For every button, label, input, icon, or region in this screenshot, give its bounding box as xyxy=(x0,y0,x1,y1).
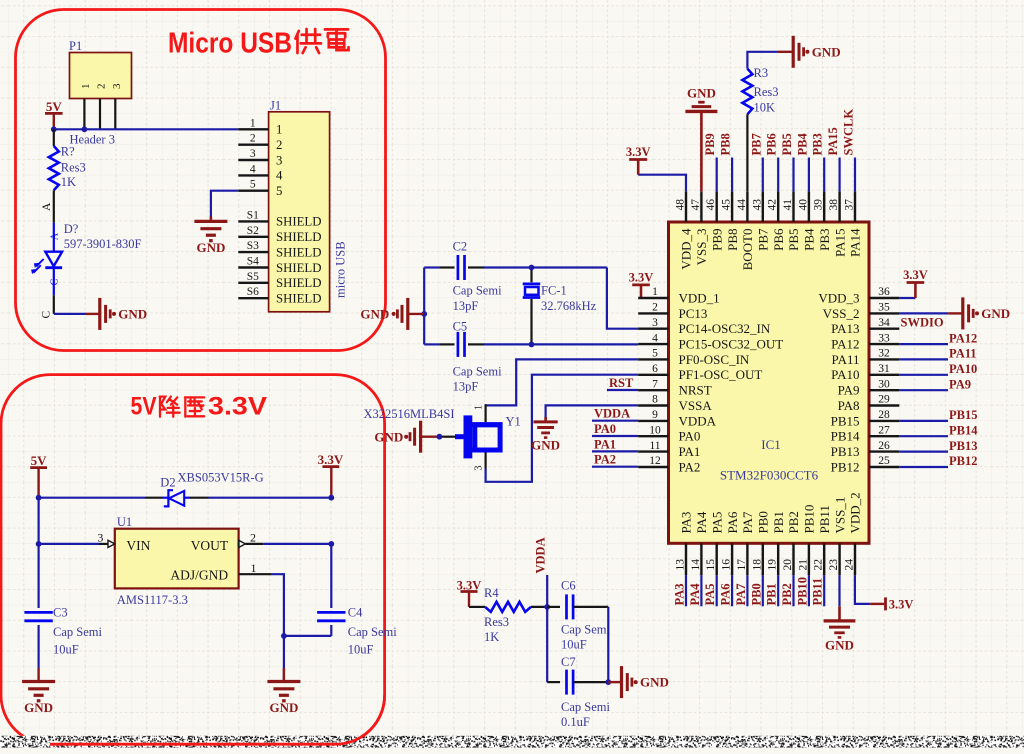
svg-text:1: 1 xyxy=(250,117,256,129)
svg-text:GND: GND xyxy=(825,638,854,653)
svg-text:3: 3 xyxy=(97,531,103,545)
svg-text:PC13: PC13 xyxy=(679,306,708,321)
svg-text:27: 27 xyxy=(878,424,890,436)
svg-text:PB4: PB4 xyxy=(802,228,817,251)
svg-text:2: 2 xyxy=(250,133,256,145)
svg-text:PB9: PB9 xyxy=(709,229,724,251)
IC pin 26 PB13 xyxy=(831,440,900,459)
svg-text:19: 19 xyxy=(767,559,779,571)
svg-text:3: 3 xyxy=(276,153,282,167)
svg-text:VDDA: VDDA xyxy=(679,413,717,428)
power ground GND (Y1 case) xyxy=(374,421,455,453)
svg-text:PF1-OSC_OUT: PF1-OSC_OUT xyxy=(679,367,763,382)
IC pin 48 VDD_4 xyxy=(675,191,694,269)
IC pin 46 PB9 xyxy=(705,191,724,251)
wire+net label PB11 (pin 22) xyxy=(811,575,825,606)
svg-text:PA1: PA1 xyxy=(679,444,701,459)
svg-text:VDD_3: VDD_3 xyxy=(818,290,859,305)
svg-text:SWCLK: SWCLK xyxy=(842,109,856,156)
svg-text:X322516MLB4SI: X322516MLB4SI xyxy=(364,407,455,421)
svg-text:3: 3 xyxy=(652,317,658,329)
power ground GND (VSS_2) xyxy=(948,297,1010,329)
svg-text:VSS_2: VSS_2 xyxy=(823,306,860,321)
svg-text:PB6: PB6 xyxy=(765,133,779,155)
svg-text:40: 40 xyxy=(797,199,809,211)
svg-text:1: 1 xyxy=(474,405,485,410)
svg-text:R4: R4 xyxy=(484,586,499,600)
J1 pin S2 xyxy=(238,225,321,244)
crystal FC-1 32.768kHz xyxy=(523,268,597,345)
svg-text:U1: U1 xyxy=(117,515,132,529)
svg-text:3: 3 xyxy=(474,466,485,471)
svg-text:28: 28 xyxy=(878,409,890,421)
svg-text:3.3V: 3.3V xyxy=(626,145,651,159)
svg-text:GND: GND xyxy=(360,307,389,322)
wire+net label PA11 (pin 32) xyxy=(899,347,976,361)
svg-text:PA9: PA9 xyxy=(838,383,860,398)
wire: top OSC32 net (C2 row) xyxy=(424,266,440,268)
svg-text:GND: GND xyxy=(640,675,669,690)
scan noise strip at page bottom xyxy=(0,736,1024,748)
svg-text:PB5: PB5 xyxy=(786,229,801,251)
svg-text:PB3: PB3 xyxy=(811,133,825,155)
title: Micro USB supply xyxy=(168,28,349,60)
svg-text:J1: J1 xyxy=(270,99,281,113)
svg-text:PA11: PA11 xyxy=(832,352,860,367)
svg-text:24: 24 xyxy=(844,559,856,571)
net label VDDA (vertical) xyxy=(534,537,548,607)
J1 pin S1 xyxy=(238,209,321,228)
earth ground GND (J1 pin5) xyxy=(194,217,227,255)
IC pin 35 VSS_2 xyxy=(823,302,900,321)
svg-text:ADJ/GND: ADJ/GND xyxy=(170,567,228,582)
svg-text:Micro USB: Micro USB xyxy=(168,28,292,60)
svg-text:18: 18 xyxy=(751,559,763,571)
svg-text:C6: C6 xyxy=(561,579,576,593)
svg-text:PA2: PA2 xyxy=(594,453,616,467)
svg-text:0.1uF: 0.1uF xyxy=(561,715,590,729)
resistor R3 Res3 10K (BOOT0 pulldown) xyxy=(742,52,778,192)
svg-text:VSS_3: VSS_3 xyxy=(694,229,709,266)
svg-text:C7: C7 xyxy=(561,655,576,669)
wire+net label PB6 (pin 42) xyxy=(765,133,779,191)
svg-text:C5: C5 xyxy=(453,320,468,334)
capacitor C2 Cap Semi 13pF xyxy=(453,240,502,314)
capacitor C4 Cap Semi 10uF xyxy=(317,544,397,656)
IC pin 34 PA13 xyxy=(831,317,899,336)
svg-text:38: 38 xyxy=(828,199,840,211)
wire VSS_2 pin35 to GND xyxy=(899,312,948,314)
IC pin 25 PB12 xyxy=(831,455,900,474)
svg-text:16: 16 xyxy=(721,559,733,571)
svg-text:47: 47 xyxy=(690,199,702,211)
wire+net label PB13 (pin 26) xyxy=(899,439,977,453)
power port 3.3V (regulator) xyxy=(318,452,344,498)
svg-text:GND: GND xyxy=(981,306,1010,321)
wire+net label PB0 (pin 18) xyxy=(749,575,763,606)
svg-text:C4: C4 xyxy=(348,606,363,620)
svg-text:30: 30 xyxy=(878,378,890,390)
wire+net label PB4 (pin 40) xyxy=(795,133,809,192)
net label PA0 on IC pin10 xyxy=(592,435,638,437)
svg-text:5V: 5V xyxy=(131,393,157,421)
svg-text:VDD_2: VDD_2 xyxy=(848,492,863,533)
svg-text:micro USB: micro USB xyxy=(334,241,348,298)
svg-text:7: 7 xyxy=(652,378,658,390)
IC pin 17 PA7 xyxy=(736,511,755,575)
IC pin 47 VSS_3 xyxy=(690,191,709,265)
capacitor C7 Cap Semi 0.1uF xyxy=(547,655,610,729)
earth ground GND (ADJ/C4) xyxy=(267,636,300,715)
IC pin 19 PB1 xyxy=(767,511,786,575)
svg-text:PA5: PA5 xyxy=(709,512,724,534)
wire+net label PB5 (pin 41) xyxy=(780,133,794,191)
svg-text:PC14-OSC32_IN: PC14-OSC32_IN xyxy=(679,321,771,336)
svg-text:S4: S4 xyxy=(247,256,259,268)
power port 5V (regulator) xyxy=(30,453,47,498)
IC pin 37 PA14 xyxy=(844,191,863,257)
svg-text:D?: D? xyxy=(64,222,79,236)
power port 3.3V to IC pin48 xyxy=(626,145,686,191)
power ground GND (OSC32 filter) xyxy=(360,298,424,330)
svg-text:22: 22 xyxy=(813,559,825,571)
svg-text:8: 8 xyxy=(652,394,658,406)
svg-text:VOUT: VOUT xyxy=(191,538,229,553)
wire: IC pin6 to Y1 pin3 xyxy=(486,375,639,482)
svg-text:XBS053V15R-G: XBS053V15R-G xyxy=(178,471,264,485)
svg-text:5: 5 xyxy=(652,348,658,360)
wire+net label PA15 (pin 38) xyxy=(826,127,840,191)
svg-text:3.3V: 3.3V xyxy=(208,393,267,421)
svg-text:PA0: PA0 xyxy=(594,422,616,436)
svg-text:4: 4 xyxy=(652,332,658,344)
svg-text:PA0: PA0 xyxy=(679,429,701,444)
wire+net label PA7 (pin 17) xyxy=(734,575,748,606)
svg-text:GND: GND xyxy=(24,700,53,715)
svg-text:PA14: PA14 xyxy=(848,228,863,257)
svg-text:SWDIO: SWDIO xyxy=(901,316,944,330)
svg-text:VSS_1: VSS_1 xyxy=(832,497,847,534)
wire ADJ node to C4 xyxy=(284,635,331,637)
J1 pin S5 xyxy=(238,271,321,290)
svg-text:C: C xyxy=(40,311,52,319)
svg-text:1: 1 xyxy=(80,84,92,90)
resistor R? Res3 1K xyxy=(41,129,86,222)
IC pin 12 PA2 xyxy=(638,455,700,474)
IC pin 30 PA9 xyxy=(838,378,900,397)
IC pin 29 PA8 xyxy=(838,394,900,413)
U1 pin 2 wire to 3.3V rail xyxy=(239,531,335,548)
svg-text:Cap Semi: Cap Semi xyxy=(453,284,502,298)
svg-text:C: C xyxy=(50,278,61,285)
svg-text:23: 23 xyxy=(828,559,840,571)
svg-text:SHIELD: SHIELD xyxy=(276,245,322,259)
wire: down to IC pin 3 xyxy=(607,268,638,329)
svg-text:33: 33 xyxy=(878,332,890,344)
svg-text:PB0: PB0 xyxy=(749,583,763,605)
svg-text:Cap Semi: Cap Semi xyxy=(348,625,397,639)
U1 pin 3 xyxy=(97,531,114,548)
svg-text:PA10: PA10 xyxy=(831,367,859,382)
J1 pin 3 xyxy=(238,148,282,167)
wire+net label PA10 (pin 31) xyxy=(899,362,977,376)
net label PA2 on IC pin12 xyxy=(592,466,638,468)
IC pin 13 PA3 xyxy=(675,512,694,576)
svg-text:Res3: Res3 xyxy=(484,615,509,629)
svg-text:21: 21 xyxy=(797,559,809,571)
IC pin 23 VSS_1 xyxy=(828,497,847,575)
svg-text:RST: RST xyxy=(609,376,634,390)
svg-text:2: 2 xyxy=(652,302,658,314)
svg-text:2: 2 xyxy=(250,531,256,545)
IC pin 42 PB6 xyxy=(767,191,786,251)
IC pin 36 VDD_3 xyxy=(818,286,899,305)
svg-text:PB14: PB14 xyxy=(831,429,860,444)
red frame: 5V to 3.3V regulator block xyxy=(1,375,385,745)
power ground GND (C7) xyxy=(608,666,669,698)
svg-text:PB10: PB10 xyxy=(802,505,817,534)
power port 3.3V (VDD_2 pin24) xyxy=(855,575,914,611)
svg-text:13: 13 xyxy=(675,559,687,571)
svg-text:VIN: VIN xyxy=(126,538,150,553)
svg-text:25: 25 xyxy=(878,455,890,467)
svg-text:R?: R? xyxy=(61,145,75,159)
svg-text:VDDA: VDDA xyxy=(594,407,630,421)
capacitor C5 Cap Semi 13pF xyxy=(453,320,502,394)
svg-text:1K: 1K xyxy=(61,175,76,189)
power port 3.3V to IC pin1 xyxy=(629,270,654,298)
svg-text:P1: P1 xyxy=(69,39,82,53)
IC pin 14 PA4 xyxy=(690,511,709,575)
IC pin 28 PB15 xyxy=(831,409,900,428)
wire: 5V node to J1 pin 1 xyxy=(54,128,239,130)
net label PA1 on IC pin11 xyxy=(592,450,638,452)
net label VDDA on IC pin9 xyxy=(592,420,638,422)
svg-text:2: 2 xyxy=(96,84,108,90)
svg-text:597-3901-830F: 597-3901-830F xyxy=(64,237,142,251)
wire+net label PB1 (pin 19) xyxy=(765,575,779,606)
svg-text:S2: S2 xyxy=(247,225,259,237)
wire: bottom OSC32 net (C5 row) to IC pin 4 xyxy=(424,343,440,345)
IC pin 6 PF1-OSC_OUT xyxy=(638,363,762,382)
svg-text:PA10: PA10 xyxy=(949,362,977,376)
svg-text:32.768kHz: 32.768kHz xyxy=(541,299,597,313)
svg-text:20: 20 xyxy=(782,559,794,571)
IC pin 7 NRST xyxy=(638,378,712,397)
power port 3.3V to IC pin36 xyxy=(899,268,928,298)
svg-text:35: 35 xyxy=(878,302,890,314)
svg-text:C2: C2 xyxy=(453,240,468,254)
svg-text:3: 3 xyxy=(111,83,123,89)
svg-text:FC-1: FC-1 xyxy=(541,284,567,298)
wire+net label PB12 (pin 25) xyxy=(899,454,977,468)
svg-text:PB12: PB12 xyxy=(831,459,860,474)
svg-text:13pF: 13pF xyxy=(453,380,479,394)
svg-text:Cap Semi: Cap Semi xyxy=(453,364,502,378)
J1 pin S3 xyxy=(238,240,321,259)
IC pin 3 PC14-OSC32_IN xyxy=(638,317,771,336)
svg-text:S6: S6 xyxy=(247,286,259,298)
svg-text:GND: GND xyxy=(374,429,403,444)
wire+net label PB9 (pin 46) xyxy=(703,133,717,191)
svg-text:Cap Semi: Cap Semi xyxy=(561,623,610,637)
svg-text:37: 37 xyxy=(844,199,856,211)
IC pin 27 PB14 xyxy=(831,424,900,443)
IC pin 44 BOOT0 xyxy=(736,191,755,270)
wire+net label PB3 (pin 39) xyxy=(811,133,825,191)
LED D? 597-3901-830F xyxy=(31,222,141,319)
wire C6 right down to C7 xyxy=(607,607,609,682)
svg-text:PA3: PA3 xyxy=(679,512,694,534)
svg-text:48: 48 xyxy=(675,199,687,211)
svg-text:PB11: PB11 xyxy=(817,505,832,533)
wire: LED cathode to GND xyxy=(54,313,86,315)
svg-text:10K: 10K xyxy=(754,101,776,115)
capacitor C6 Cap Semi 10uF xyxy=(547,579,610,652)
svg-text:SHIELD: SHIELD xyxy=(276,276,322,290)
svg-text:VDDA: VDDA xyxy=(534,537,548,573)
wire: 5V to VIN xyxy=(37,498,39,544)
power ground GND (R3) xyxy=(778,36,841,68)
svg-text:3: 3 xyxy=(250,148,256,160)
svg-text:4: 4 xyxy=(250,163,256,175)
svg-text:44: 44 xyxy=(736,199,748,211)
IC pin 16 PA6 xyxy=(721,511,740,575)
svg-text:1: 1 xyxy=(652,286,658,298)
svg-text:5: 5 xyxy=(276,184,282,198)
IC pin 41 PB5 xyxy=(782,191,801,251)
svg-text:3.3V: 3.3V xyxy=(318,452,344,467)
svg-text:VDD_4: VDD_4 xyxy=(679,228,694,270)
IC pin 39 PB3 xyxy=(813,191,832,251)
J1 pin S4 xyxy=(238,256,321,275)
svg-text:GND: GND xyxy=(812,44,841,59)
svg-text:PA7: PA7 xyxy=(734,584,748,606)
svg-text:AMS1117-3.3: AMS1117-3.3 xyxy=(117,593,188,607)
svg-text:PA8: PA8 xyxy=(838,398,860,413)
wire VDDA node down xyxy=(546,607,548,682)
svg-text:5V: 5V xyxy=(46,99,63,114)
wire: J1 pin 5 to GND xyxy=(211,191,238,217)
J1 pin 5 xyxy=(238,179,282,198)
wire+net label PB14 (pin 27) xyxy=(899,423,978,437)
connector P1 Header 3 xyxy=(69,39,132,147)
svg-text:PB7: PB7 xyxy=(756,228,771,251)
svg-text:PB6: PB6 xyxy=(771,228,786,251)
svg-text:GND: GND xyxy=(196,240,225,255)
earth ground GND (VSS_1) xyxy=(824,606,856,652)
earth ground GND (VSSA) xyxy=(531,417,560,453)
svg-text:10uF: 10uF xyxy=(53,642,79,656)
svg-text:1K: 1K xyxy=(484,630,499,644)
power port 5V (USB block) xyxy=(45,99,63,129)
wire+net label PB15 (pin 28) xyxy=(899,408,977,422)
resistor R4 Res3 1K xyxy=(469,586,547,644)
wire+net label PA3 (pin 13) xyxy=(673,575,687,606)
svg-text:PA6: PA6 xyxy=(725,511,740,533)
svg-text:PA7: PA7 xyxy=(740,511,755,533)
svg-text:NRST: NRST xyxy=(679,383,712,398)
svg-text:GND: GND xyxy=(118,307,147,322)
svg-text:A: A xyxy=(50,232,61,240)
svg-text:PB13: PB13 xyxy=(831,444,860,459)
IC pin 24 VDD_2 xyxy=(844,492,863,575)
svg-text:3.3V: 3.3V xyxy=(903,268,928,282)
svg-text:43: 43 xyxy=(751,199,763,211)
svg-text:PA2: PA2 xyxy=(679,459,701,474)
svg-text:13pF: 13pF xyxy=(453,299,479,313)
svg-text:15: 15 xyxy=(705,559,717,571)
IC pin 40 PB4 xyxy=(797,191,816,251)
svg-text:Res3: Res3 xyxy=(61,161,86,175)
svg-text:PA12: PA12 xyxy=(831,337,859,352)
wire: IC pin5 to Y1 pin1 xyxy=(486,359,639,405)
wire IC pin8 VSSA to GND xyxy=(546,405,639,420)
IC pin 11 PA1 xyxy=(638,440,700,459)
junction dots OSC32 xyxy=(529,265,535,271)
IC pin 21 PB10 xyxy=(797,505,816,576)
svg-text:11: 11 xyxy=(649,440,660,452)
capacitor C3 Cap Semi 10uF xyxy=(24,544,102,682)
svg-text:PB9: PB9 xyxy=(703,133,717,155)
svg-text:PB3: PB3 xyxy=(817,229,832,251)
U1 pin 1 (ADJ) wire down xyxy=(239,561,284,636)
svg-text:9: 9 xyxy=(652,409,658,421)
svg-text:10uF: 10uF xyxy=(348,642,374,656)
IC pin 38 PA15 xyxy=(828,191,847,257)
svg-text:1: 1 xyxy=(251,561,257,575)
crystal Y1 X322516MLB4SI xyxy=(364,404,521,470)
svg-text:6: 6 xyxy=(652,363,658,375)
svg-text:S3: S3 xyxy=(247,240,259,252)
wire+net label PA4 (pin 14) xyxy=(688,575,702,606)
svg-text:1: 1 xyxy=(276,123,282,137)
svg-text:S5: S5 xyxy=(247,271,259,283)
svg-text:PB1: PB1 xyxy=(765,583,779,605)
svg-text:PB13: PB13 xyxy=(949,439,977,453)
connector J1 micro USB xyxy=(269,99,330,312)
svg-text:VDD_1: VDD_1 xyxy=(679,290,720,305)
title: 5V step-down 3.3V xyxy=(131,393,268,421)
svg-text:PB2: PB2 xyxy=(780,583,794,605)
IC pin 32 PA11 xyxy=(832,348,900,367)
power ground GND (VSS_3 pin47) xyxy=(685,86,717,192)
svg-text:PB10: PB10 xyxy=(795,577,809,605)
svg-text:2: 2 xyxy=(276,138,282,152)
svg-text:12: 12 xyxy=(649,455,661,467)
wire+net label PB8 (pin 45) xyxy=(719,133,733,191)
svg-text:PB8: PB8 xyxy=(725,229,740,251)
svg-text:14: 14 xyxy=(690,559,702,571)
svg-text:STM32F030CCT6: STM32F030CCT6 xyxy=(720,468,819,483)
svg-text:5V: 5V xyxy=(31,453,48,468)
svg-text:39: 39 xyxy=(813,199,825,211)
svg-text:32: 32 xyxy=(878,348,890,360)
svg-text:VSSA: VSSA xyxy=(679,398,713,413)
svg-text:PA5: PA5 xyxy=(703,584,717,606)
J1 pin S6 xyxy=(238,286,321,305)
J1 pin 2 xyxy=(238,133,282,152)
svg-text:A: A xyxy=(41,202,53,211)
svg-text:PB14: PB14 xyxy=(949,423,978,437)
svg-text:PB2: PB2 xyxy=(786,511,801,533)
wire+net label PA12 (pin 33) xyxy=(899,331,977,345)
svg-text:PB12: PB12 xyxy=(949,454,977,468)
svg-text:36: 36 xyxy=(878,286,890,298)
svg-text:3.3V: 3.3V xyxy=(889,598,914,612)
wire+net label PA5 (pin 15) xyxy=(703,575,717,606)
svg-text:Cap Semi: Cap Semi xyxy=(53,625,102,639)
